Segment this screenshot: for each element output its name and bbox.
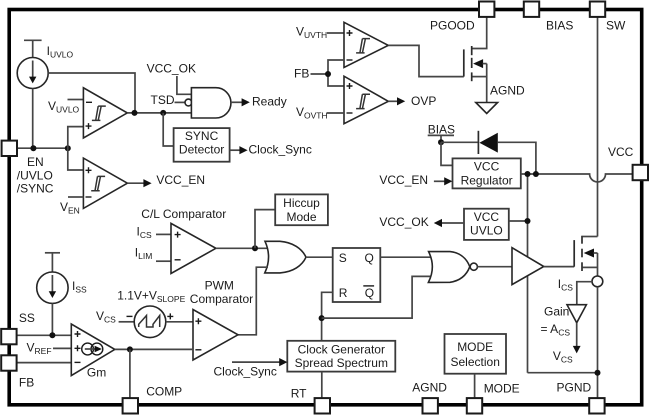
- svg-text:FB: FB: [294, 66, 309, 80]
- wire: VCC UVLO to rail: [509, 220, 528, 222]
- gain amplifier: [567, 305, 586, 323]
- wire+arrow: Clock_Sync into clock generator: [232, 361, 281, 363]
- svg-text:EN: EN: [27, 155, 44, 169]
- svg-text:PGND: PGND: [557, 380, 592, 394]
- wire: C/L output to OR gate: [216, 247, 268, 249]
- svg-text:MODE: MODE: [457, 340, 493, 354]
- AND gate (Ready): [191, 88, 231, 118]
- comparator PWM: [193, 310, 238, 361]
- wire+arrow: VCC_OK output (left): [441, 222, 465, 224]
- box SYNC Detector: [174, 128, 230, 162]
- wire: horizontal to PGND node: [528, 372, 598, 374]
- wire+arrow: V_CS output: [576, 323, 578, 347]
- wire: to Hiccup Mode box: [255, 210, 275, 249]
- diode (BIAS to VCC): [477, 131, 479, 154]
- node dot FB: [325, 71, 331, 77]
- wire+arrow: Clock_Sync output: [230, 149, 242, 151]
- wire: to COMP pin: [129, 349, 131, 399]
- node dot SYNC branch: [160, 110, 166, 116]
- wire: regulator output to VCC pin with hop over SW: [521, 174, 633, 182]
- svg-text:COMP: COMP: [146, 385, 182, 399]
- wire: sense tap to gain amp: [577, 282, 592, 305]
- box SR latch: [333, 248, 381, 302]
- svg-text:SYNC: SYNC: [185, 129, 219, 143]
- wire: I_UVLO to comparator output node: [48, 73, 135, 113]
- pin MODE: [467, 398, 482, 413]
- svg-text:R: R: [339, 286, 348, 300]
- svg-text:VCC_OK: VCC_OK: [147, 61, 196, 75]
- wire: V_EN input: [68, 196, 83, 198]
- wire: VCC_OK to AND input: [177, 76, 192, 94]
- comparator OVTH: [344, 76, 388, 124]
- wire: FB input: [17, 362, 72, 364]
- wire: to SYNC detector: [163, 113, 173, 146]
- pin VCC: [633, 165, 648, 180]
- svg-text:C/L Comparator: C/L Comparator: [141, 207, 226, 221]
- node dot EN/I_UVLO: [30, 145, 36, 151]
- svg-text:Clock_Sync: Clock_Sync: [249, 142, 312, 156]
- node dot hiccup branch: [252, 245, 258, 251]
- svg-text:SS: SS: [19, 311, 35, 325]
- svg-text:AGND: AGND: [490, 83, 525, 97]
- svg-text:Mode: Mode: [286, 210, 316, 224]
- nor-gate: [428, 252, 469, 283]
- wire: Q to NOR: [380, 256, 431, 258]
- wire: Gm output to PWM - input: [115, 348, 193, 350]
- svg-text:OVP: OVP: [411, 94, 436, 108]
- svg-text:Hiccup: Hiccup: [283, 196, 320, 210]
- wire: V_UVTH input: [327, 32, 344, 34]
- svg-text:Detector: Detector: [179, 142, 224, 156]
- svg-text:VCC_OK: VCC_OK: [379, 215, 428, 229]
- transistor power FET: [574, 236, 597, 277]
- wire: SW net vertical from SW pin to power FET drain: [597, 17, 599, 237]
- svg-text:VCC: VCC: [474, 160, 500, 174]
- wire+arrow into regulator: [434, 180, 446, 182]
- box VCC UVLO: [464, 209, 509, 240]
- box VCC Regulator: [453, 158, 521, 188]
- current source I_SS: [37, 253, 68, 335]
- pin RT: [315, 398, 330, 413]
- svg-text:BIAS: BIAS: [546, 19, 573, 33]
- or-gate: [265, 241, 306, 273]
- comparator EN (V_EN): [83, 158, 127, 208]
- svg-text:Ready: Ready: [252, 95, 287, 109]
- svg-text:PWM: PWM: [205, 279, 234, 293]
- svg-text:Spread Spectrum: Spread Spectrum: [295, 356, 388, 370]
- pin PGOOD: [479, 2, 494, 17]
- svg-text:VCC_EN: VCC_EN: [156, 173, 205, 187]
- wire: EN pin to node: [16, 147, 68, 149]
- wire: comparator output to AND gate: [127, 112, 191, 114]
- current sense circle: [592, 276, 603, 287]
- svg-text:BIAS: BIAS: [428, 122, 455, 136]
- svg-text:/SYNC: /SYNC: [17, 181, 54, 195]
- pin FB: [1, 355, 16, 370]
- comparator UVTH: [344, 22, 388, 67]
- wire: BIAS to diode: [441, 141, 478, 143]
- wire: driver to gate: [544, 266, 574, 268]
- comparator UVLO: [83, 88, 127, 138]
- node dot EN branch: [65, 145, 71, 151]
- svg-text:Gm: Gm: [87, 366, 106, 380]
- svg-text:VCC: VCC: [474, 210, 500, 224]
- wire+arrow: Ready output: [231, 101, 243, 103]
- svg-text:Regulator: Regulator: [461, 173, 513, 187]
- transistor PGOOD FET: [464, 17, 487, 103]
- ground AGND symbol: [476, 103, 498, 114]
- svg-text:RT: RT: [291, 387, 307, 401]
- wire: diode to VCC node: [498, 142, 536, 174]
- pin SW: [590, 2, 605, 17]
- buffer driver: [512, 248, 544, 285]
- current source I_UVLO: [17, 40, 48, 148]
- pin AGND: [423, 398, 438, 413]
- svg-text:Gain: Gain: [544, 305, 569, 319]
- wire+arrow: VCC_EN output: [127, 182, 144, 184]
- svg-text:AGND: AGND: [412, 381, 447, 395]
- wire: to MODE pin: [474, 374, 476, 399]
- wire: V_UVLO input: [68, 99, 84, 101]
- svg-text:S: S: [339, 251, 347, 265]
- pin EN: [2, 141, 17, 156]
- wire: branch to both comparator + inputs: [68, 127, 84, 170]
- wire: UVTH comp output to PGOOD FET gate: [388, 45, 464, 76]
- svg-text:UVLO: UVLO: [470, 224, 503, 238]
- wire: PWM comp output to OR gate: [238, 267, 268, 335]
- box Hiccup Mode: [275, 194, 328, 225]
- node dot comparator output: [132, 110, 138, 116]
- wire: TSD to bubble: [175, 101, 186, 103]
- wire: PGND node down to PGND pin: [597, 373, 599, 399]
- wire+arrow: OVP output: [388, 100, 398, 102]
- node dot diode join: [533, 171, 539, 177]
- svg-text:Clock_Sync: Clock_Sync: [214, 365, 277, 379]
- svg-text:Clock Generator: Clock Generator: [298, 342, 385, 356]
- summer circle with slope waveform: [134, 306, 166, 338]
- svg-text:Comparator: Comparator: [190, 292, 253, 306]
- wire: summer to PWM +: [166, 321, 193, 323]
- svg-text:MODE: MODE: [484, 382, 520, 396]
- box Clock Generator: [287, 341, 395, 372]
- pin PGND: [589, 398, 604, 413]
- comparator C/L: [156, 233, 171, 235]
- wire: BIAS into VCC Regulator: [441, 142, 453, 165]
- op-amp Gm: [71, 324, 115, 376]
- svg-text:TSD: TSD: [151, 93, 175, 107]
- svg-text:Q: Q: [365, 286, 374, 300]
- wire: V_OVTH input: [327, 112, 344, 114]
- wire: OR to latch S: [306, 256, 333, 258]
- pin COMP: [123, 398, 138, 413]
- wire: R node routing: [322, 292, 333, 341]
- wire: FB to comparators: [311, 73, 329, 75]
- wire: clock generator to RT pin: [321, 372, 323, 399]
- wire: V_CS to summer: [119, 321, 135, 323]
- wire: NOR to driver: [477, 266, 512, 268]
- svg-text:FB: FB: [19, 376, 34, 390]
- TSD inverter bubble: [185, 99, 192, 106]
- svg-text:SW: SW: [606, 19, 626, 33]
- svg-text:VCC: VCC: [608, 145, 634, 159]
- svg-text:Selection: Selection: [451, 355, 500, 369]
- svg-text:Q: Q: [365, 251, 374, 265]
- pin SS: [1, 329, 16, 344]
- wire: VCC rail vertical x=527.5 down to PGND path: [527, 174, 529, 373]
- node dot VCC rail: [525, 171, 531, 177]
- wire: V_REF input: [53, 347, 71, 349]
- box MODE Selection: [445, 334, 507, 374]
- wire: SS to Gm: [17, 334, 72, 336]
- svg-text:VCC_EN: VCC_EN: [379, 173, 428, 187]
- pin BIAS: [524, 2, 539, 17]
- svg-text:PGOOD: PGOOD: [430, 19, 475, 33]
